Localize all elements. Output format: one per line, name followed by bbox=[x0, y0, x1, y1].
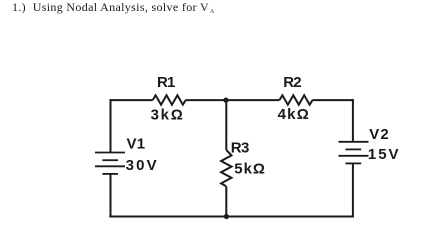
svg-text:R1: R1 bbox=[157, 74, 175, 91]
svg-text:V2: V2 bbox=[369, 126, 388, 143]
wire left branch upper (corner to V1) bbox=[110, 99, 112, 152]
svg-text:15V: 15V bbox=[368, 146, 399, 163]
wire right branch lower (V2 to corner) bbox=[352, 164, 354, 218]
title text bbox=[12, 0, 215, 15]
bottom junction dot bbox=[224, 214, 229, 219]
resistor R3 bbox=[221, 150, 231, 186]
resistor R1 bbox=[153, 95, 186, 104]
svg-text:5kΩ: 5kΩ bbox=[234, 160, 265, 177]
wire middle branch upper (node A to R3) bbox=[225, 100, 227, 150]
svg-text:V1: V1 bbox=[127, 135, 146, 152]
svg-text:4kΩ: 4kΩ bbox=[278, 106, 309, 123]
svg-text:3kΩ: 3kΩ bbox=[151, 106, 183, 123]
wire left branch lower (V1 to corner) bbox=[110, 174, 112, 218]
wire R1 to R2 through node A bbox=[186, 99, 280, 101]
resistor R2 bbox=[279, 95, 312, 104]
wire bottom rail bbox=[109, 216, 354, 218]
wire middle branch lower (R3 to bottom node) bbox=[225, 186, 227, 217]
wire top-left to R1 bbox=[110, 99, 153, 101]
wire right branch upper (corner to V2) bbox=[352, 99, 354, 141]
svg-text:R2: R2 bbox=[283, 74, 301, 91]
wire R2 to top-right corner bbox=[313, 99, 353, 101]
battery V2 plates bbox=[339, 141, 369, 143]
node A junction dot bbox=[223, 98, 228, 103]
svg-text:30V: 30V bbox=[126, 157, 157, 174]
svg-text:R3: R3 bbox=[231, 140, 250, 157]
battery V1 plates bbox=[95, 152, 125, 154]
